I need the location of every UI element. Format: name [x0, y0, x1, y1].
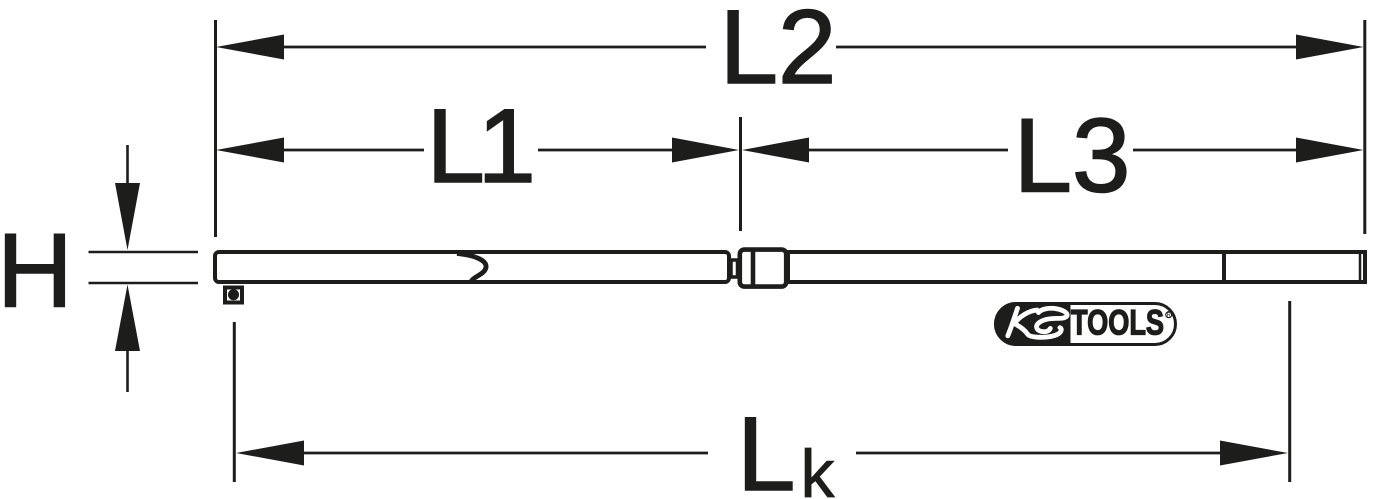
inner tube tip curve: [457, 254, 486, 284]
arrowhead L1 left: [216, 138, 284, 163]
L3 dimension line: [804, 149, 1008, 152]
svg-text:1: 1: [478, 88, 536, 205]
svg-text:H: H: [0, 213, 73, 330]
Lk dimension line: [300, 452, 708, 455]
handle divider: [1222, 252, 1226, 282]
extension line middle (L1/L3 junction): [739, 117, 742, 231]
square drive: [225, 288, 242, 303]
svg-text:L: L: [737, 396, 795, 499]
drive pin circle: [228, 289, 239, 300]
arrowhead L1 right (at middle): [672, 138, 739, 163]
logo registered mark: [1166, 312, 1172, 318]
extension line right (L2/L3 end): [1363, 20, 1366, 234]
handle end inner line: [1359, 252, 1362, 282]
logo KS script: [1008, 308, 1067, 337]
svg-text:TOOLS: TOOLS: [1071, 304, 1164, 343]
svg-text:k: k: [801, 436, 836, 499]
Lk extension line right: [1288, 301, 1291, 482]
H arrow tail lower: [126, 345, 129, 392]
arrowhead L3 left (at middle): [742, 138, 809, 163]
KS Tools logo: [994, 302, 1176, 346]
arrowhead L2 right: [1296, 35, 1364, 60]
arrowhead H up (lower): [115, 285, 140, 352]
svg-text:L: L: [427, 88, 485, 205]
arrowhead Lk right: [1220, 441, 1288, 466]
H arrow tail upper: [126, 145, 129, 190]
H dimension line bottom: [89, 282, 199, 285]
collar divider: [751, 250, 756, 287]
arrowhead L3 right: [1296, 138, 1364, 163]
logo black left half: [994, 302, 1071, 346]
svg-text:L3: L3: [1014, 98, 1131, 215]
wrench handle: [788, 252, 1365, 282]
logo capsule outline: [996, 304, 1176, 345]
svg-text:R: R: [1167, 313, 1172, 319]
neck between tube and collar: [731, 260, 738, 277]
Lk extension line left: [233, 322, 236, 482]
L1 dimension line: [280, 149, 424, 152]
arrowhead L2 left: [216, 35, 284, 60]
arrowhead H down (upper): [115, 183, 140, 250]
wrench head tube: [215, 252, 729, 282]
L2 dimension line: [280, 46, 706, 49]
extension line left (L2/L1 start): [214, 20, 217, 237]
svg-text:L2: L2: [720, 0, 837, 106]
H dimension line top: [89, 251, 199, 254]
arrowhead Lk left: [236, 441, 304, 466]
adjustment collar: [740, 250, 786, 287]
